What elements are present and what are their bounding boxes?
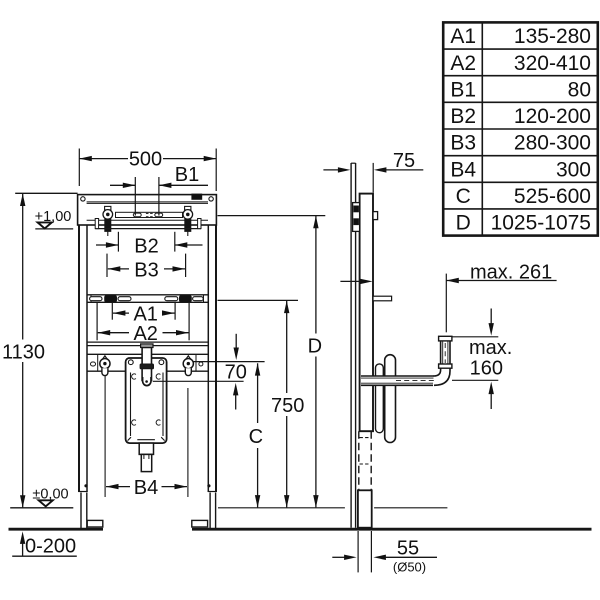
slot oval right	[155, 213, 163, 217]
frame right column	[207, 225, 209, 492]
svg-text:1025-1075: 1025-1075	[491, 212, 591, 235]
drain pipe collar	[439, 364, 452, 368]
siphon cover disc front	[385, 355, 396, 443]
box bottom corner ticks	[128, 437, 131, 440]
dim max 160	[452, 336, 498, 338]
svg-text:70: 70	[225, 361, 247, 383]
dim 55 extension lines	[357, 531, 359, 572]
siphon cover disc rear	[376, 364, 384, 433]
inlet pipe body	[142, 347, 151, 380]
dim max 261	[446, 278, 459, 283]
top profile black clip	[192, 194, 202, 199]
svg-text:A2: A2	[450, 52, 476, 75]
slot oval left	[133, 213, 141, 217]
svg-text:B2: B2	[450, 105, 476, 128]
dim 750	[286, 301, 288, 393]
wall anchor bracket side	[353, 203, 360, 232]
inlet pipe cap	[141, 344, 153, 348]
central dashed slot	[146, 212, 153, 214]
750 reference line	[218, 299, 299, 301]
dim max 261 reference line	[445, 274, 447, 333]
left hanger bolt	[105, 206, 111, 210]
bracket leader line right	[187, 388, 189, 497]
dim 70 upper leader	[193, 361, 264, 363]
drain horizontal pipe	[361, 376, 440, 385]
left foot plate	[87, 520, 103, 527]
svg-text:500: 500	[129, 149, 162, 171]
dim B2 extension lines	[117, 232, 119, 252]
drain pipe top flange	[439, 336, 452, 341]
svg-text:B3: B3	[134, 259, 158, 281]
svg-text:1130: 1130	[2, 342, 45, 364]
dim 500 extension lines	[78, 149, 80, 187]
dim B1	[110, 184, 135, 186]
dim 75	[323, 169, 345, 171]
faucet bracket left	[103, 356, 108, 359]
right foot plate	[192, 520, 208, 527]
svg-text:D: D	[456, 212, 471, 235]
svg-text:B2: B2	[134, 236, 158, 258]
svg-text:B3: B3	[450, 132, 476, 155]
svg-text:75: 75	[393, 150, 415, 172]
dim 0-200 arrow	[20, 531, 25, 544]
svg-text:750: 750	[271, 395, 304, 417]
svg-text:B4: B4	[450, 158, 476, 181]
dim A1	[113, 312, 129, 314]
svg-text:280-300: 280-300	[514, 132, 591, 155]
right leg	[208, 491, 217, 493]
dim C	[257, 363, 259, 423]
svg-text:320-410: 320-410	[514, 52, 591, 75]
dim 500	[79, 158, 128, 160]
bracket leader line left	[104, 376, 106, 497]
right hanger bolt	[185, 206, 191, 210]
svg-text:(Ø50): (Ø50)	[393, 560, 426, 575]
svg-text:0-200: 0-200	[25, 536, 76, 558]
box bottom inner line	[137, 439, 155, 441]
lower mounting band	[87, 353, 208, 355]
crossbar slotted bar	[116, 212, 183, 217]
wall rail side	[350, 163, 352, 528]
dim B2	[96, 244, 118, 246]
drain pipe center lines	[444, 343, 446, 363]
svg-text:135-280: 135-280	[514, 25, 591, 48]
faucet bracket right	[186, 356, 191, 359]
spec table	[443, 22, 598, 235]
side tab	[373, 212, 378, 220]
dim A2 extension lines	[96, 303, 98, 340]
svg-text:B4: B4	[134, 477, 158, 499]
top profile box	[78, 195, 217, 225]
side stub pipe	[373, 296, 392, 301]
svg-text:55: 55	[397, 537, 419, 559]
box c-marks	[132, 374, 136, 379]
box outlet neck	[139, 443, 153, 454]
D reference line	[218, 215, 326, 217]
frame profile side	[360, 194, 373, 432]
telescopic section dashed	[360, 430, 373, 432]
dim 75 extension line	[372, 163, 374, 193]
svg-text:C: C	[249, 426, 263, 448]
rail slot ovals	[90, 297, 102, 301]
svg-text:B1: B1	[175, 164, 199, 186]
dim 70 arrows	[235, 334, 237, 348]
svg-text:B1: B1	[450, 78, 476, 101]
dim B1 extension lines	[134, 177, 136, 216]
dim 1130	[22, 194, 24, 340]
lower rail double line	[87, 341, 208, 343]
left leg	[78, 491, 87, 493]
drain vertical pipe	[441, 341, 450, 364]
svg-text:max.: max.	[469, 337, 512, 359]
dim B3	[108, 268, 129, 270]
drain down pipe at floor	[358, 490, 372, 527]
frame top reference line	[15, 192, 77, 194]
dim B3 extension lines	[106, 254, 108, 277]
dim A1 extension lines	[111, 303, 113, 320]
svg-text:D: D	[308, 335, 322, 357]
frame left column	[78, 225, 80, 492]
svg-text:A2: A2	[133, 323, 157, 345]
svg-text:A1: A1	[450, 25, 476, 48]
inlet pipe rounded tip	[143, 377, 151, 386]
dim 55	[332, 556, 344, 558]
box inner side lines	[130, 373, 132, 437]
dim A2	[98, 332, 129, 334]
box outlet pipe	[141, 454, 151, 471]
upper mounting rail A row	[87, 294, 208, 296]
inlet pipe collar	[140, 364, 153, 369]
floor line	[9, 528, 104, 531]
dim max 261 arrow at frame	[340, 280, 363, 282]
svg-text:160: 160	[470, 358, 503, 380]
box corner screws top	[128, 360, 133, 365]
rail clamp left	[105, 295, 117, 302]
bottom flange of top profile	[95, 228, 201, 230]
zero level reference line right part	[218, 507, 345, 509]
svg-text:C: C	[456, 185, 471, 208]
top profile corner screws	[81, 197, 85, 201]
rail clamp right	[179, 295, 191, 302]
svg-text:300: 300	[556, 158, 591, 181]
svg-text:max. 261: max. 261	[470, 261, 552, 283]
top crossbar lower line	[87, 219, 208, 221]
drain pipe elbow	[434, 368, 450, 385]
dim B4	[106, 486, 130, 488]
svg-text:525-600: 525-600	[514, 185, 591, 208]
svg-text:120-200: 120-200	[514, 105, 591, 128]
dim D	[315, 216, 317, 334]
concealed body box	[126, 358, 167, 443]
top profile inner double line	[87, 201, 208, 203]
dim 70 lower leader	[153, 380, 244, 382]
svg-text:80: 80	[568, 78, 591, 101]
